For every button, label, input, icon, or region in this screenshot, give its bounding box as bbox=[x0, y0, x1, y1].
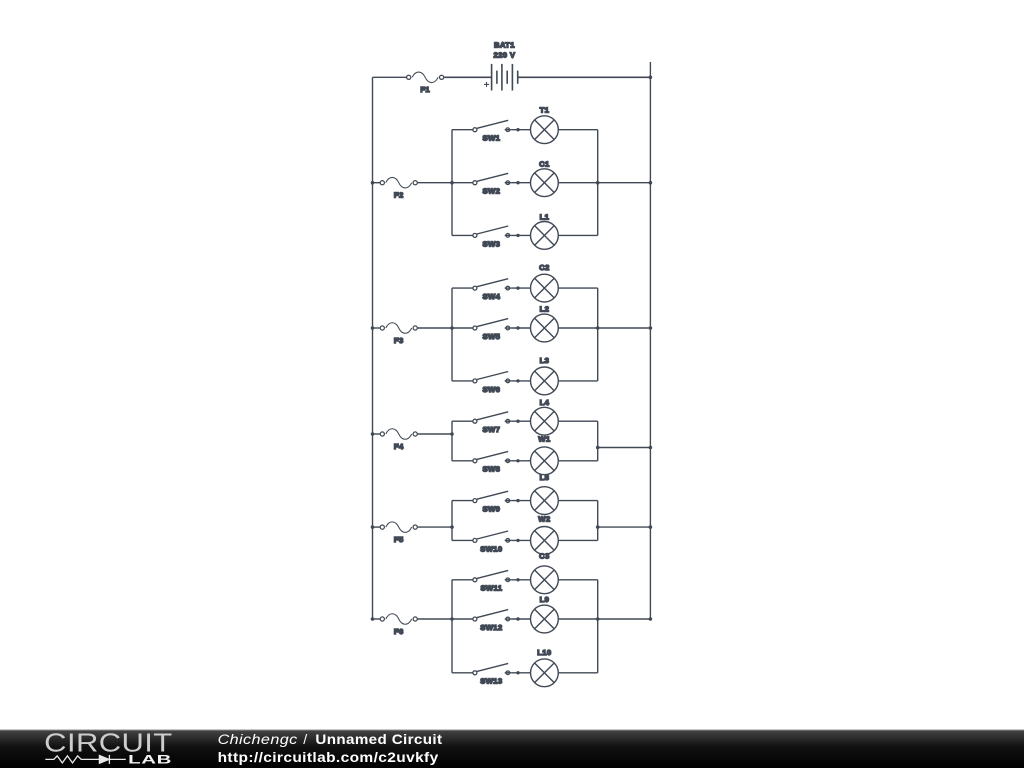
wire branch left vertical bbox=[451, 421, 453, 461]
junction branch right bbox=[596, 525, 600, 529]
lamp L10 bbox=[531, 659, 559, 687]
switch SW13 bbox=[452, 663, 531, 674]
wire right bus bbox=[649, 62, 651, 619]
junction right bus bbox=[649, 181, 653, 185]
fuse F4 bbox=[380, 429, 417, 440]
svg-text:SW10: SW10 bbox=[480, 544, 502, 553]
wire left bus bbox=[372, 77, 374, 619]
wire branch right vertical bbox=[597, 288, 599, 381]
wire C1 out bbox=[558, 182, 597, 184]
svg-text:L8: L8 bbox=[540, 473, 550, 482]
fuse F6 bbox=[380, 614, 417, 625]
lamp L1 bbox=[531, 222, 559, 250]
svg-text:SW4: SW4 bbox=[483, 292, 501, 301]
wire branch left vertical bbox=[451, 501, 453, 541]
svg-text:SW13: SW13 bbox=[480, 677, 502, 686]
wire branch out bbox=[598, 182, 651, 184]
lamp W1 bbox=[531, 447, 559, 475]
junction right bus bbox=[649, 617, 653, 621]
wire F5 to branch bbox=[417, 526, 452, 528]
wire bus to F5 bbox=[373, 526, 381, 528]
switch SW12 bbox=[452, 610, 531, 621]
wire C2 out bbox=[558, 287, 597, 289]
wire branch right vertical bbox=[597, 580, 599, 673]
fuse F2 bbox=[380, 177, 417, 188]
fuse F3 bbox=[380, 323, 417, 334]
svg-text:F2: F2 bbox=[394, 191, 404, 200]
svg-text:F4: F4 bbox=[394, 442, 404, 451]
lamp L4 bbox=[531, 407, 559, 435]
junction right bus bbox=[649, 525, 653, 529]
svg-text:F6: F6 bbox=[394, 627, 404, 636]
wire L8 out bbox=[558, 500, 597, 502]
wire branch out bbox=[598, 618, 651, 620]
junction left bus F3 bbox=[371, 326, 375, 330]
wire L2 out bbox=[558, 327, 597, 329]
svg-text:L10: L10 bbox=[537, 648, 551, 657]
svg-text:SW3: SW3 bbox=[483, 239, 501, 248]
junction branch left bbox=[450, 432, 454, 436]
svg-text:SW12: SW12 bbox=[480, 623, 502, 632]
wire branch left vertical bbox=[451, 580, 453, 673]
junction branch right bbox=[596, 617, 600, 621]
svg-text:W1: W1 bbox=[538, 435, 551, 444]
svg-text:SW2: SW2 bbox=[483, 187, 501, 196]
switch SW8 bbox=[452, 451, 531, 462]
wire F2 to branch bbox=[417, 182, 452, 184]
fuse F1 bbox=[407, 72, 444, 83]
svg-text:F5: F5 bbox=[394, 535, 404, 544]
lamp L2 bbox=[531, 314, 559, 342]
svg-text:L2: L2 bbox=[540, 304, 550, 313]
svg-text:http://circuitlab.com/c2uvkfy: http://circuitlab.com/c2uvkfy bbox=[218, 750, 439, 766]
svg-text:LAB: LAB bbox=[128, 752, 172, 766]
svg-text:T1: T1 bbox=[540, 105, 550, 114]
logo resistor-diode glyph bbox=[45, 755, 126, 764]
wire L10 out bbox=[558, 672, 597, 674]
svg-text:L1: L1 bbox=[540, 213, 550, 222]
fuse F5 bbox=[380, 522, 417, 533]
junction branch right bbox=[596, 181, 600, 185]
junction left bus F4 bbox=[371, 432, 375, 436]
junction branch right bbox=[596, 446, 600, 450]
lamp C1 bbox=[531, 169, 559, 197]
svg-text:SW5: SW5 bbox=[483, 332, 501, 341]
battery BAT1 bbox=[444, 64, 650, 91]
svg-text:F1: F1 bbox=[420, 85, 430, 94]
footer bar bbox=[0, 730, 1024, 768]
wire branch left vertical bbox=[451, 130, 453, 236]
wire branch out bbox=[598, 447, 651, 449]
svg-text:SW7: SW7 bbox=[483, 425, 501, 434]
wire bus to F2 bbox=[373, 182, 381, 184]
junction top-right bbox=[649, 76, 653, 80]
junction branch left bbox=[450, 525, 454, 529]
svg-text:L9: L9 bbox=[540, 595, 550, 604]
svg-text:SW9: SW9 bbox=[483, 505, 501, 514]
wire bus to F3 bbox=[373, 327, 381, 329]
svg-text:SW1: SW1 bbox=[483, 134, 501, 143]
lamp C2 bbox=[531, 274, 559, 302]
lamp T1 bbox=[531, 116, 559, 144]
lamp L8 bbox=[531, 487, 559, 515]
junction left bus F2 bbox=[371, 181, 375, 185]
wire W1 out bbox=[558, 460, 597, 462]
wire top-left bbox=[373, 76, 407, 78]
junction branch right bbox=[596, 326, 600, 330]
wire L1 out bbox=[558, 234, 597, 236]
wire branch left vertical bbox=[451, 288, 453, 381]
wire branch right vertical bbox=[597, 130, 599, 236]
wire F4 to branch bbox=[417, 433, 452, 435]
wire bus to F6 bbox=[373, 618, 381, 620]
switch SW10 bbox=[452, 531, 531, 542]
wire branch right vertical bbox=[597, 501, 599, 541]
junction branch left bbox=[450, 181, 454, 185]
junction right bus bbox=[649, 326, 653, 330]
svg-text:220 V: 220 V bbox=[493, 51, 515, 60]
junction right bus bbox=[649, 446, 653, 450]
switch SW3 bbox=[452, 226, 531, 237]
wire branch out bbox=[598, 526, 651, 528]
svg-text:C1: C1 bbox=[539, 159, 550, 168]
wire bus to F4 bbox=[373, 433, 381, 435]
svg-text:C3: C3 bbox=[539, 552, 550, 561]
switch SW1 bbox=[452, 120, 531, 131]
svg-text:Unnamed Circuit: Unnamed Circuit bbox=[315, 732, 442, 748]
wire L9 out bbox=[558, 618, 597, 620]
lamp L9 bbox=[531, 605, 559, 633]
svg-text:Chichengc: Chichengc bbox=[218, 732, 298, 748]
switch SW9 bbox=[452, 491, 531, 502]
wire branch out bbox=[598, 327, 651, 329]
switch SW11 bbox=[452, 570, 531, 581]
lamp C3 bbox=[531, 566, 559, 594]
wire L3 out bbox=[558, 380, 597, 382]
svg-text:/: / bbox=[303, 732, 307, 748]
wire branch right vertical bbox=[597, 421, 599, 461]
svg-text:C2: C2 bbox=[539, 263, 550, 272]
wire L4 out bbox=[558, 420, 597, 422]
wire F3 to branch bbox=[417, 327, 452, 329]
svg-text:SW11: SW11 bbox=[480, 584, 502, 593]
wire W2 out bbox=[558, 539, 597, 541]
lamp W2 bbox=[531, 527, 559, 555]
svg-text:W2: W2 bbox=[538, 515, 550, 524]
switch SW6 bbox=[452, 372, 531, 383]
svg-text:F3: F3 bbox=[394, 336, 404, 345]
wire T1 out bbox=[558, 129, 597, 131]
svg-text:L4: L4 bbox=[540, 398, 550, 407]
lamp L3 bbox=[531, 367, 559, 395]
junction branch left bbox=[450, 326, 454, 330]
switch SW4 bbox=[452, 279, 531, 290]
svg-text:L3: L3 bbox=[540, 356, 550, 365]
wire C3 out bbox=[558, 579, 597, 581]
svg-text:SW6: SW6 bbox=[483, 385, 501, 394]
switch SW5 bbox=[452, 319, 531, 330]
junction left bus F5 bbox=[371, 525, 375, 529]
svg-text:BAT1: BAT1 bbox=[494, 41, 515, 50]
wire F6 to branch bbox=[417, 618, 452, 620]
junction left bus F6 bbox=[371, 617, 375, 621]
junction branch left bbox=[450, 617, 454, 621]
switch SW7 bbox=[452, 412, 531, 423]
switch SW2 bbox=[452, 173, 531, 184]
svg-text:SW8: SW8 bbox=[483, 465, 501, 474]
